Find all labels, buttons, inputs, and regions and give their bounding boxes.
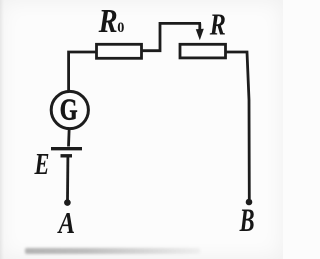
svg-text:0: 0 (117, 20, 124, 36)
svg-text:A: A (57, 207, 75, 241)
svg-text:E: E (34, 146, 50, 180)
svg-text:R: R (98, 1, 118, 39)
svg-text:G: G (60, 92, 78, 126)
svg-text:B: B (239, 203, 255, 239)
svg-text:R: R (209, 8, 226, 43)
